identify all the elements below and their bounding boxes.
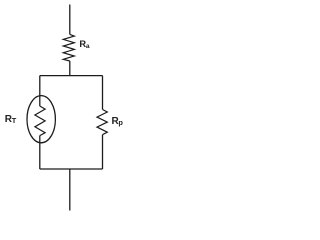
resistor Rp	[97, 110, 107, 135]
svg-text:Rp: Rp	[112, 116, 124, 127]
wire: left branch lower	[39, 136, 41, 169]
svg-text:RT: RT	[5, 114, 17, 125]
resistor Ra	[63, 34, 74, 61]
wire: top lead into Ra	[69, 5, 71, 35]
thermistor RT ellipse	[27, 96, 55, 143]
wire: left branch upper	[39, 76, 41, 106]
wire: bottom rail	[40, 168, 103, 170]
resistor RT zigzag	[35, 106, 45, 136]
wire: top rail	[40, 75, 103, 77]
wire: right branch lower	[102, 135, 104, 169]
wire: bottom lead	[69, 169, 71, 211]
wire: Ra to top node	[69, 61, 71, 76]
svg-text:Ra: Ra	[79, 39, 90, 50]
wire: right branch upper	[102, 76, 104, 110]
